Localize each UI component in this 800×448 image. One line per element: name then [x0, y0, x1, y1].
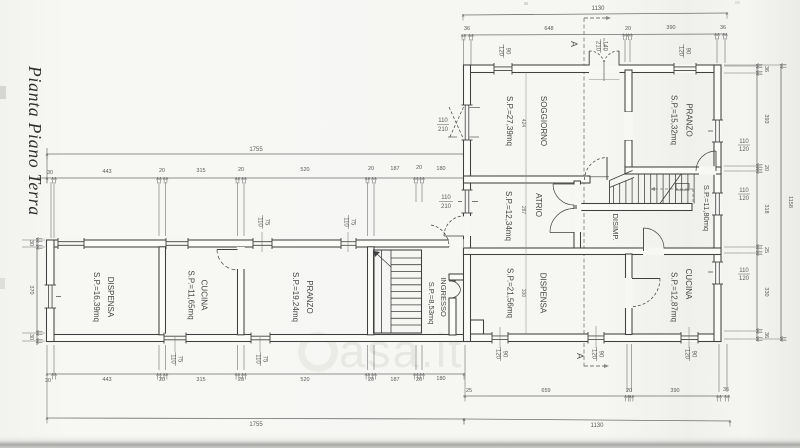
right witness lines: [724, 65, 762, 67]
svg-text:30: 30: [47, 170, 53, 176]
svg-text:DISIMP.: DISIMP.: [611, 214, 620, 241]
window wing left: [46, 285, 55, 308]
window center line wing t1: [261, 232, 263, 252]
main overall bottom line 1130: [464, 419, 730, 421]
svg-text:DISPENSA: DISPENSA: [539, 273, 548, 314]
wall CUCINA-PRANZO: [238, 247, 245, 335]
svg-text:110: 110: [170, 354, 176, 364]
svg-text:1755: 1755: [249, 422, 263, 428]
svg-text:390: 390: [666, 25, 675, 31]
svg-text:A: A: [575, 353, 585, 359]
window 75/110 wing top 1: [253, 239, 272, 248]
svg-text:INGRESSO: INGRESSO: [439, 277, 448, 317]
main bottom wall: [464, 334, 722, 342]
window 110/210 atrio left: [463, 190, 472, 213]
window center line wing t2: [347, 232, 349, 252]
svg-text:S.P.=12,87mq: S.P.=12,87mq: [670, 272, 679, 322]
cucina door leaf and arc: [632, 278, 660, 280]
svg-text:30: 30: [45, 378, 51, 384]
window center line main b2: [595, 326, 597, 348]
window 90/120 pranzo top: [674, 64, 696, 73]
wing overall bottom line 1755: [47, 418, 464, 419]
svg-text:20: 20: [368, 166, 374, 172]
atrio exterior door arc: [444, 235, 464, 237]
svg-text:443: 443: [102, 169, 111, 175]
svg-text:210: 210: [438, 127, 449, 133]
main room sw notch: [464, 320, 484, 334]
window 90/120 dispensa bottom: [492, 333, 508, 342]
svg-text:20: 20: [416, 377, 422, 383]
main bottom dimension chain: [463, 395, 730, 397]
svg-text:30: 30: [28, 334, 34, 340]
pranzo stair door arc: [715, 151, 717, 171]
atrio door1 arc: [553, 183, 574, 185]
svg-text:36: 36: [763, 66, 769, 72]
svg-text:287: 287: [520, 206, 526, 215]
svg-text:180: 180: [436, 166, 445, 172]
svg-text:36: 36: [464, 26, 470, 32]
section arrow top: [584, 17, 606, 19]
window 75/110 wing top 2: [341, 239, 356, 248]
window 110/120 stair right: [713, 193, 722, 215]
wing bottom wall: [47, 335, 465, 342]
svg-text:PRANZO: PRANZO: [685, 103, 694, 136]
svg-text:36: 36: [723, 387, 729, 393]
window center line main b3: [688, 327, 690, 348]
svg-text:110: 110: [441, 195, 451, 201]
main stair walk line: [655, 188, 693, 190]
svg-text:520: 520: [300, 167, 309, 173]
svg-text:S.P.=15,32mq: S.P.=15,32mq: [670, 95, 679, 145]
window center line wing b2: [259, 337, 261, 352]
svg-text:36: 36: [763, 332, 769, 338]
svg-text:370: 370: [28, 285, 34, 294]
svg-text:120: 120: [739, 147, 750, 153]
window 90/120 mid bottom: [588, 333, 604, 342]
window sill dash cucina: [708, 271, 713, 273]
window 110/120 pranzo right: [713, 120, 722, 142]
window 90/120 cucina bottom: [681, 333, 698, 342]
svg-text:390: 390: [670, 388, 679, 394]
window sill dash wing left: [56, 296, 61, 298]
section arrow bottom: [584, 365, 604, 367]
svg-text:443: 443: [102, 377, 111, 383]
scanner shadow band at bottom edge: [0, 434, 800, 448]
ingresso double door arcs: [451, 281, 461, 290]
svg-text:S.P.=19,24mq: S.P.=19,24mq: [291, 272, 300, 322]
svg-text:140: 140: [602, 41, 608, 52]
wing bottom dimension chain: [47, 373, 464, 375]
gap top double door: [589, 64, 620, 73]
svg-text:1158: 1158: [787, 196, 793, 208]
svg-text:PRANZO: PRANZO: [305, 280, 314, 313]
svg-text:DISPENSA: DISPENSA: [106, 277, 115, 318]
main top witness lines: [463, 39, 465, 65]
wall PRANZO-INGRESSO: [368, 247, 375, 335]
svg-text:ATRIO: ATRIO: [534, 193, 543, 217]
ingresso stair rails: [381, 250, 383, 333]
main bottom witness lines: [464, 345, 466, 396]
svg-text:90: 90: [505, 48, 511, 55]
svg-text:1755: 1755: [249, 147, 263, 153]
main right wall: [714, 65, 721, 342]
ingresso right wall lower: [449, 298, 456, 335]
threshold line stair head: [590, 176, 609, 178]
window 110/210 soggiorno left french: [463, 105, 472, 140]
window 90/120 soggiorno top: [494, 64, 512, 73]
svg-text:110: 110: [438, 118, 448, 124]
svg-text:110: 110: [255, 354, 261, 364]
gap cucina door: [625, 278, 633, 308]
wing top dimension line 1755: [47, 153, 464, 155]
svg-text:A: A: [569, 41, 579, 47]
svg-text:25: 25: [466, 388, 472, 394]
gap cucina wing door: [237, 247, 245, 269]
svg-text:20: 20: [238, 377, 244, 383]
window wing top cucina: [166, 239, 188, 248]
wall PRANZO bottom: [625, 167, 721, 174]
double door arcs top: [588, 51, 590, 66]
main stair break line: [660, 174, 681, 204]
svg-text:75: 75: [177, 356, 183, 363]
atrio door2 arc: [550, 232, 574, 234]
svg-text:120: 120: [495, 349, 501, 360]
svg-text:20: 20: [626, 388, 632, 394]
svg-text:90: 90: [691, 351, 697, 358]
svg-text:110: 110: [739, 268, 749, 274]
svg-text:S.P.=21,56mq: S.P.=21,56mq: [506, 268, 515, 318]
wall SOGGIORNO-PRANZO lower: [625, 140, 632, 171]
window wing bottom 1: [164, 334, 186, 343]
svg-text:S.P.=11,80mq: S.P.=11,80mq: [702, 185, 711, 231]
window center line main b1: [499, 327, 501, 348]
wall DISPENSA-CUCINA main: [626, 254, 633, 335]
scan speck top: [524, 2, 528, 5]
ingresso stair box: [374, 250, 422, 333]
svg-text:90: 90: [598, 351, 604, 358]
door center dashed line: [603, 38, 605, 50]
svg-text:20: 20: [368, 377, 374, 383]
svg-text:187: 187: [390, 166, 399, 172]
main top dimension line 1130: [463, 13, 727, 15]
main stair top slope: [610, 171, 633, 181]
svg-text:1130: 1130: [591, 423, 605, 429]
scan speck top 2: [735, 1, 740, 4]
svg-text:Pianta Piano Terra: Pianta Piano Terra: [25, 65, 45, 216]
soggiorno stair door leaf: [606, 157, 608, 180]
window sill dash pranzo: [708, 130, 713, 132]
svg-text:520: 520: [300, 377, 309, 383]
main top wall: [464, 65, 722, 73]
faint casa.it watermark: [302, 336, 335, 369]
main stair left edge: [609, 181, 611, 204]
wall DISPENSA-CUCINA: [159, 247, 166, 335]
svg-text:CUCINA: CUCINA: [200, 280, 209, 311]
svg-text:75: 75: [264, 219, 270, 226]
svg-text:20: 20: [763, 165, 769, 171]
reference line vertical: [525, 73, 527, 335]
ingresso dashed door swing: [431, 225, 449, 247]
ingresso stair arrow: [377, 254, 391, 267]
svg-text:120: 120: [739, 196, 750, 202]
svg-text:315: 315: [196, 377, 205, 383]
window sill dashes atrio: [458, 201, 462, 203]
disimp door leaf and arc: [643, 228, 645, 251]
svg-text:S.P.=11,65mq: S.P.=11,65mq: [187, 270, 196, 319]
svg-text:20: 20: [416, 165, 422, 171]
svg-text:S.P.=12,34mq: S.P.=12,34mq: [504, 191, 513, 241]
wing upper dimension chain line: [37, 177, 464, 179]
svg-text:S.P.=8,53mq: S.P.=8,53mq: [427, 282, 436, 325]
stair small landing box: [676, 184, 689, 191]
svg-text:110: 110: [343, 217, 349, 227]
main top chain line: [463, 34, 727, 35]
wing left wall: [47, 240, 55, 342]
svg-text:120: 120: [739, 276, 750, 282]
svg-text:315: 315: [196, 168, 205, 174]
french window sill dashes: [470, 107, 481, 109]
svg-text:120: 120: [678, 46, 684, 57]
svg-text:30: 30: [28, 240, 34, 246]
gap atrio exterior door: [463, 216, 472, 236]
svg-text:210: 210: [595, 41, 601, 52]
wing top wall: [47, 240, 465, 247]
row divider wall: [464, 248, 722, 255]
svg-text:330: 330: [763, 287, 769, 296]
svg-text:S.P.=27,39mq: S.P.=27,39mq: [505, 96, 514, 146]
svg-text:90: 90: [685, 48, 691, 55]
gap ingresso top: [449, 239, 464, 248]
wing upper chain witness lines: [50, 182, 52, 238]
svg-text:110: 110: [257, 217, 263, 227]
svg-text:120: 120: [684, 349, 690, 360]
svg-text:75: 75: [350, 219, 356, 226]
wing bottom chain ticks: [46, 373, 48, 380]
window wing bottom 2: [251, 334, 270, 343]
svg-text:659: 659: [541, 388, 550, 394]
wing upper chain ticks: [46, 177, 48, 184]
wall below stairs: [576, 204, 692, 211]
gap pranzo stair door: [699, 166, 716, 175]
scan speck left 1: [0, 86, 6, 99]
right overall dim line 1158: [780, 65, 782, 340]
main left wall: [464, 65, 471, 342]
svg-text:1130: 1130: [592, 6, 606, 12]
wall SOGGIORNO-PRANZO upper: [625, 70, 632, 112]
svg-text:20: 20: [159, 168, 165, 174]
main top chain ticks: [461, 34, 463, 41]
svg-text:S.P.=16,39mq: S.P.=16,39mq: [92, 272, 101, 322]
scan speck left 2: [0, 278, 5, 289]
svg-text:180: 180: [436, 376, 445, 382]
svg-text:424: 424: [520, 119, 526, 128]
gap atrio door 1: [573, 185, 581, 206]
right vertical dim chain: [756, 65, 758, 340]
window wing top dispensa: [58, 239, 84, 248]
ingresso stair treads: [391, 257, 422, 259]
wing left vertical dim line: [36, 238, 38, 345]
svg-text:187: 187: [390, 377, 399, 383]
svg-text:318: 318: [763, 204, 769, 213]
svg-text:75: 75: [262, 356, 268, 363]
svg-text:SOGGIORNO: SOGGIORNO: [539, 96, 548, 146]
svg-text:210: 210: [441, 204, 452, 210]
svg-text:110: 110: [739, 188, 749, 194]
wing cucina door leaf and arc: [217, 249, 238, 251]
svg-text:330: 330: [520, 289, 526, 298]
french window triangles: [449, 107, 464, 139]
svg-text:20: 20: [159, 377, 165, 383]
wall ATRIO right: [574, 181, 581, 249]
wing bottom witness lines: [46, 345, 48, 374]
main stair treads: [613, 186, 615, 204]
section line A-A dashed: [583, 18, 585, 368]
window center line wing b1: [174, 337, 176, 352]
svg-text:25: 25: [763, 247, 769, 253]
svg-text:20: 20: [625, 26, 631, 32]
svg-text:393: 393: [763, 114, 769, 123]
svg-text:20: 20: [238, 167, 244, 173]
window 110/120 cucina right: [713, 262, 722, 284]
svg-text:asa.it: asa.it: [339, 324, 463, 377]
svg-text:120: 120: [591, 349, 597, 360]
svg-text:120: 120: [498, 46, 504, 57]
gap disimp door: [643, 247, 664, 255]
wall SOGGIORNO-ATRIO: [464, 176, 591, 183]
svg-text:36: 36: [720, 25, 726, 31]
svg-text:648: 648: [544, 26, 553, 32]
soggiorno stair door arc: [585, 158, 608, 181]
ingresso wall stub: [449, 274, 464, 280]
svg-text:CUCINA: CUCINA: [684, 269, 693, 300]
gap atrio door 2: [573, 209, 581, 232]
svg-text:90: 90: [502, 351, 508, 358]
svg-text:110: 110: [739, 139, 749, 145]
gap soggiorno-pranzo door: [624, 112, 633, 140]
